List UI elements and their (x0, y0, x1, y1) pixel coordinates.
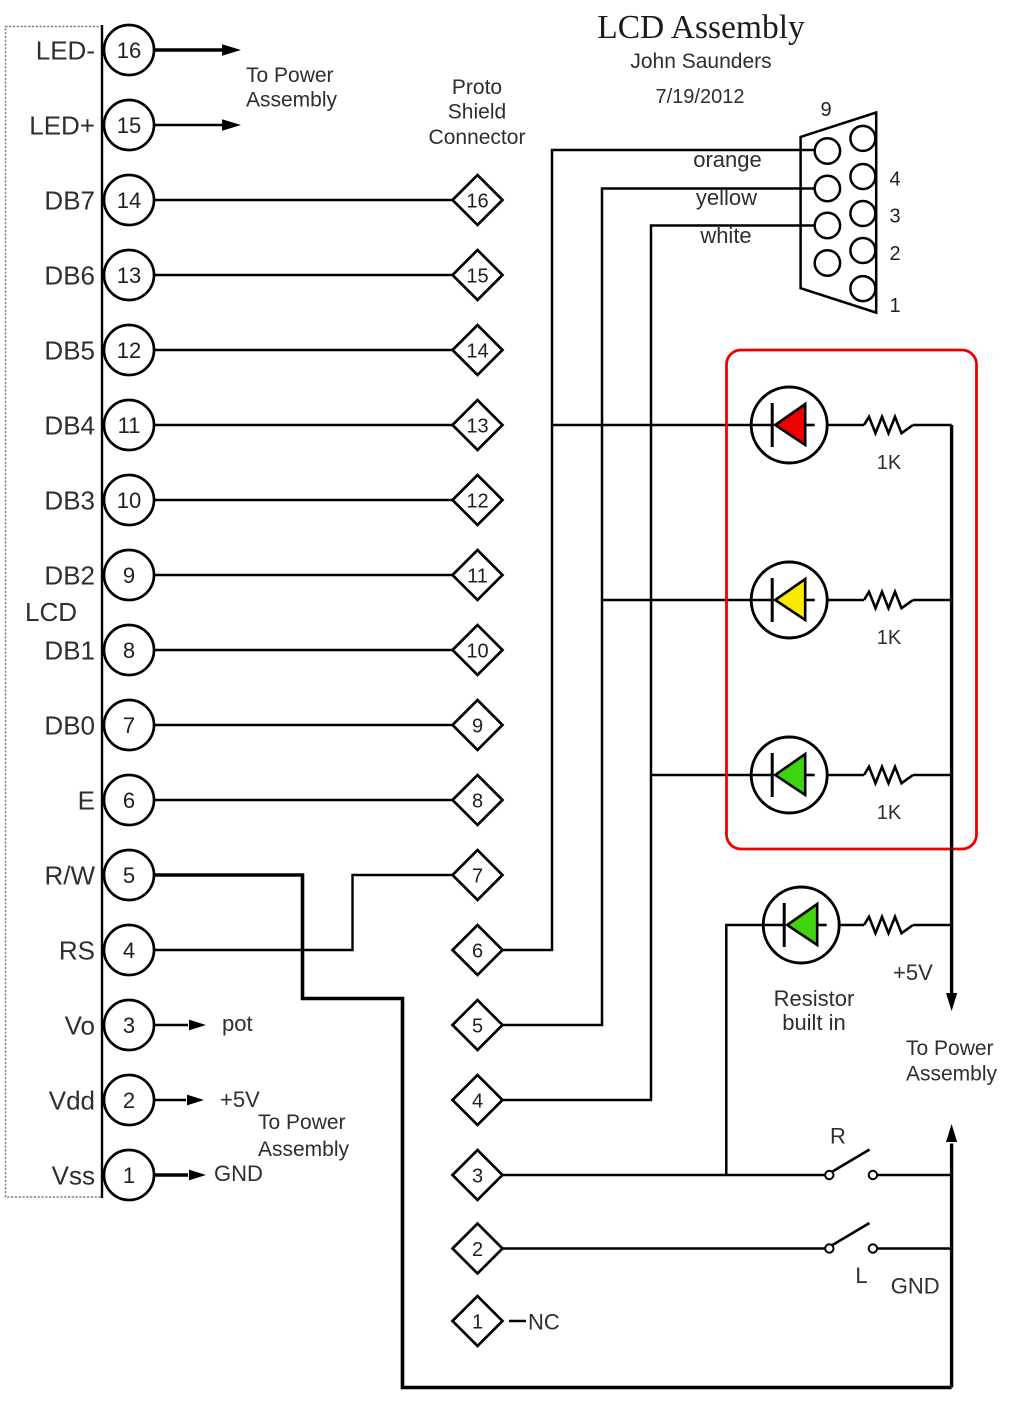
svg-text:Connector: Connector (429, 126, 526, 149)
svg-text:4: 4 (123, 938, 135, 963)
svg-text:8: 8 (123, 638, 135, 663)
svg-text:RS: RS (59, 935, 95, 965)
svg-text:To Power: To Power (258, 1111, 346, 1134)
svg-text:Vdd: Vdd (49, 1085, 95, 1115)
svg-text:9: 9 (123, 563, 135, 588)
svg-text:orange: orange (693, 147, 762, 172)
svg-text:white: white (699, 223, 751, 248)
svg-text:11: 11 (467, 565, 488, 587)
svg-text:2: 2 (123, 1088, 135, 1113)
svg-text:DB0: DB0 (44, 710, 95, 740)
svg-text:14: 14 (466, 340, 488, 362)
svg-text:GND: GND (214, 1161, 263, 1186)
svg-text:Assembly: Assembly (906, 1063, 998, 1086)
svg-text:John Saunders: John Saunders (630, 50, 771, 73)
svg-text:DB6: DB6 (44, 260, 95, 290)
svg-text:Shield: Shield (448, 101, 506, 124)
svg-text:Vss: Vss (52, 1160, 95, 1190)
svg-text:1: 1 (472, 1311, 483, 1333)
svg-text:3: 3 (472, 1165, 483, 1187)
svg-text:6: 6 (123, 788, 135, 813)
svg-text:16: 16 (466, 190, 488, 212)
svg-text:1: 1 (890, 295, 901, 317)
svg-text:built in: built in (782, 1010, 846, 1035)
svg-text:11: 11 (118, 413, 141, 438)
svg-text:4: 4 (890, 169, 901, 191)
svg-text:2: 2 (472, 1239, 483, 1261)
svg-text:14: 14 (117, 188, 141, 213)
svg-text:8: 8 (472, 790, 483, 812)
svg-text:Proto: Proto (452, 76, 502, 99)
svg-text:5: 5 (123, 863, 135, 888)
svg-text:13: 13 (117, 263, 141, 288)
svg-text:1: 1 (123, 1163, 135, 1188)
svg-text:16: 16 (117, 38, 141, 63)
svg-text:13: 13 (466, 415, 488, 437)
svg-text:GND: GND (891, 1274, 940, 1299)
svg-text:Vo: Vo (65, 1010, 95, 1040)
svg-text:12: 12 (117, 338, 141, 363)
svg-text:DB2: DB2 (44, 560, 95, 590)
svg-text:E: E (78, 785, 95, 815)
svg-text:3: 3 (123, 1013, 135, 1038)
svg-text:10: 10 (117, 488, 141, 513)
svg-text:Assembly: Assembly (258, 1138, 350, 1161)
svg-text:6: 6 (472, 940, 483, 962)
svg-text:pot: pot (222, 1011, 253, 1036)
svg-text:7: 7 (123, 713, 135, 738)
svg-text:R/W: R/W (44, 860, 95, 890)
svg-text:R: R (830, 1124, 846, 1149)
svg-text:7/19/2012: 7/19/2012 (656, 86, 745, 108)
svg-text:+5V: +5V (220, 1087, 260, 1112)
svg-text:DB5: DB5 (44, 335, 95, 365)
svg-text:1K: 1K (877, 627, 902, 649)
svg-text:DB3: DB3 (44, 485, 95, 515)
svg-text:12: 12 (466, 490, 488, 512)
svg-text:LED+: LED+ (29, 110, 95, 140)
svg-text:5: 5 (472, 1015, 483, 1037)
svg-text:+5V: +5V (893, 960, 933, 985)
svg-text:DB4: DB4 (44, 410, 95, 440)
svg-text:LCD: LCD (25, 597, 77, 627)
svg-text:yellow: yellow (696, 185, 757, 210)
svg-text:15: 15 (117, 113, 141, 138)
svg-text:LCD Assembly: LCD Assembly (597, 9, 805, 46)
svg-text:Resistor: Resistor (774, 986, 855, 1011)
svg-text:To Power: To Power (906, 1037, 994, 1060)
svg-text:10: 10 (466, 640, 488, 662)
svg-text:NC: NC (528, 1310, 560, 1335)
svg-text:1K: 1K (877, 452, 902, 474)
svg-text:3: 3 (890, 206, 901, 228)
svg-text:15: 15 (466, 265, 488, 287)
svg-text:Assembly: Assembly (246, 89, 338, 112)
svg-text:To Power: To Power (246, 64, 334, 87)
svg-text:7: 7 (472, 865, 483, 887)
svg-text:9: 9 (820, 99, 831, 121)
svg-text:DB7: DB7 (44, 185, 95, 215)
svg-text:LED-: LED- (36, 35, 95, 65)
svg-text:4: 4 (472, 1090, 483, 1112)
svg-text:9: 9 (472, 715, 483, 737)
svg-text:L: L (855, 1263, 867, 1288)
svg-text:2: 2 (890, 243, 901, 265)
svg-text:DB1: DB1 (44, 635, 95, 665)
svg-text:1K: 1K (877, 802, 902, 824)
